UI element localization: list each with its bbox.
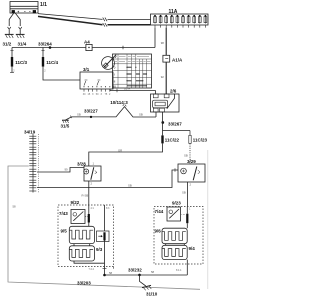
svg-text:SB: SB (182, 191, 186, 195)
svg-text:58: 58 (13, 205, 17, 209)
svg-text:GR: GR (118, 149, 122, 153)
svg-text:3/1: 3/1 (83, 67, 90, 72)
svg-text:11A: 11A (169, 9, 178, 15)
svg-text:A4: A4 (84, 40, 90, 45)
svg-text:2/6: 2/6 (170, 89, 177, 94)
svg-text:10/114:3: 10/114:3 (110, 100, 128, 105)
svg-text:0: 0 (114, 66, 116, 70)
svg-text:9/6: 9/6 (155, 229, 162, 234)
svg-text:11C/22: 11C/22 (165, 137, 180, 142)
svg-text:7/44: 7/44 (155, 209, 164, 214)
svg-text:92: 92 (161, 75, 165, 79)
svg-text:7/43: 7/43 (59, 211, 68, 216)
svg-text:9/23: 9/23 (172, 201, 181, 206)
svg-text:1/1: 1/1 (40, 2, 47, 8)
svg-text:9/22: 9/22 (71, 200, 80, 205)
svg-text:3/28: 3/28 (77, 162, 86, 167)
svg-text:BL-R: BL-R (124, 87, 130, 91)
svg-text:98: 98 (161, 41, 165, 45)
svg-text:SB: SB (139, 113, 143, 117)
svg-text:III: III (113, 85, 116, 89)
svg-text:7:4.4: 7:4.4 (89, 268, 95, 271)
svg-text:99: 99 (65, 168, 69, 172)
svg-text:11C/23: 11C/23 (193, 137, 208, 142)
svg-text:II: II (114, 79, 116, 83)
svg-text:33/232: 33/232 (128, 268, 142, 273)
svg-text:31/5: 31/5 (61, 123, 70, 128)
svg-text:I: I (114, 73, 115, 77)
svg-text:8:4.4: 8:4.4 (176, 269, 182, 272)
svg-text:33/203: 33/203 (77, 281, 91, 286)
svg-text:A1/A: A1/A (172, 58, 183, 63)
svg-text:33/267: 33/267 (168, 121, 182, 126)
svg-text:SB: SB (128, 184, 132, 188)
svg-text:11C/3: 11C/3 (15, 60, 27, 65)
svg-text:33/264: 33/264 (38, 42, 52, 47)
svg-text:SB: SB (184, 154, 188, 158)
svg-text:11C/4: 11C/4 (46, 60, 58, 65)
svg-text:33/227: 33/227 (84, 108, 98, 113)
svg-text:58: 58 (151, 270, 155, 274)
svg-text:9/3: 9/3 (96, 247, 103, 252)
svg-text:SB: SB (77, 113, 81, 117)
svg-text:34/19: 34/19 (24, 130, 36, 135)
svg-text:3/29: 3/29 (187, 159, 196, 164)
svg-text:31/2: 31/2 (3, 42, 12, 47)
svg-text:9/5: 9/5 (61, 228, 68, 233)
svg-text:31/4: 31/4 (18, 42, 27, 47)
svg-text:R-SB: R-SB (82, 194, 89, 198)
svg-text:31/10: 31/10 (146, 292, 158, 297)
svg-text:58: 58 (109, 271, 113, 275)
svg-text:9/4: 9/4 (189, 246, 196, 251)
